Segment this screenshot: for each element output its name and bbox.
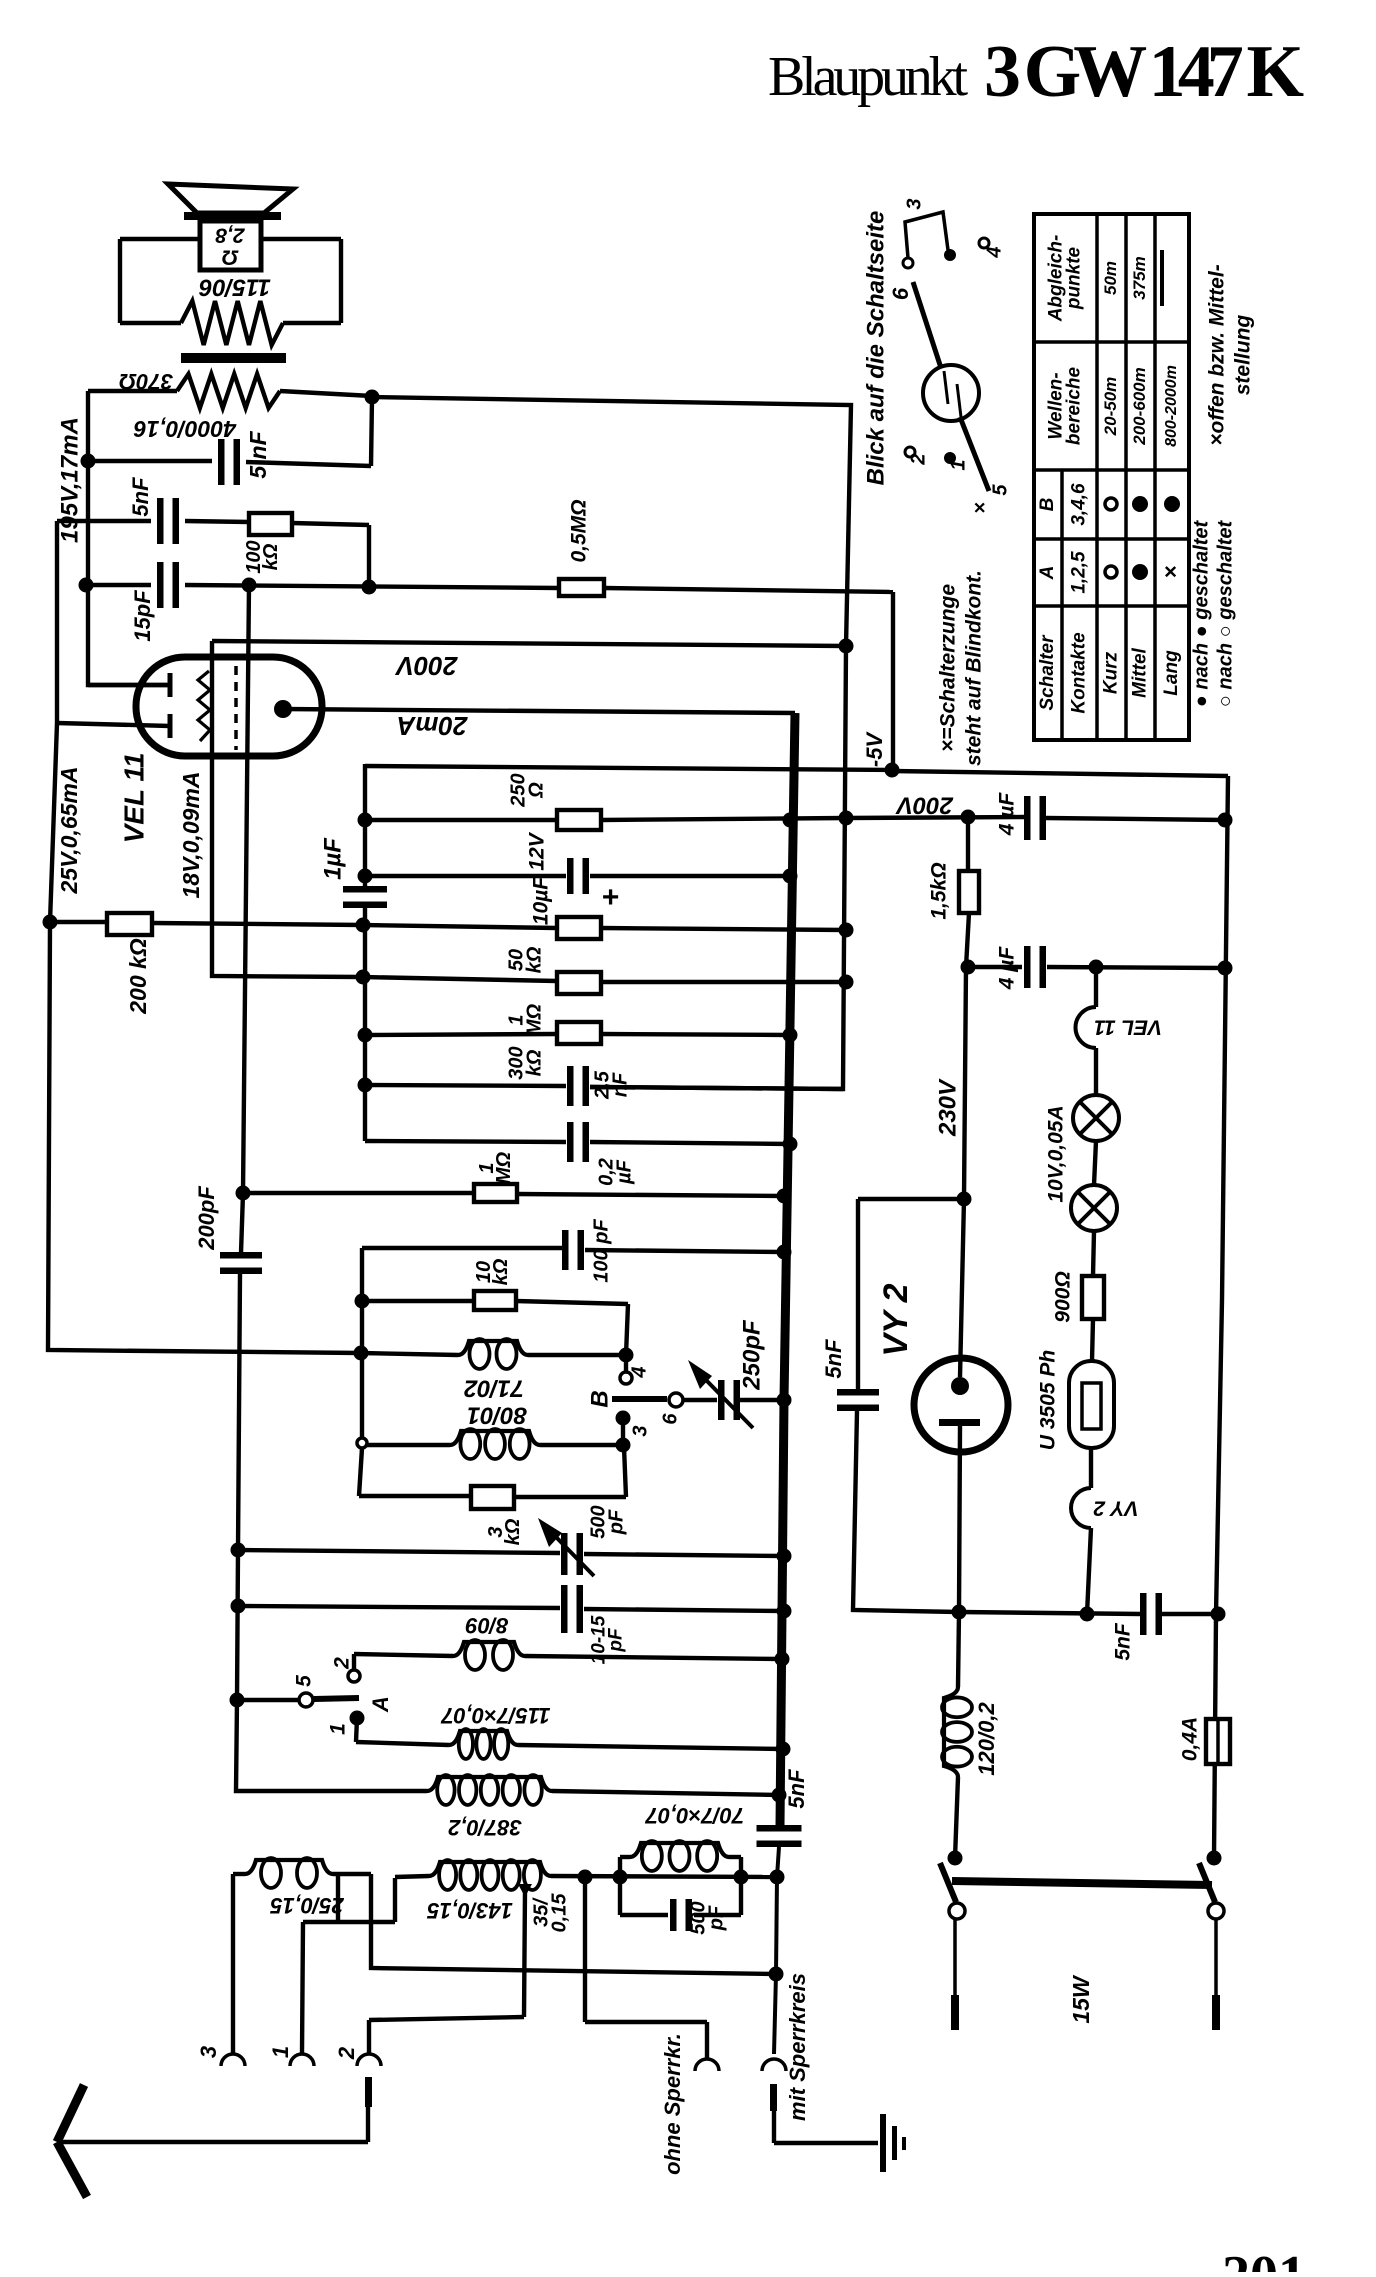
svg-text:200 kΩ: 200 kΩ — [125, 938, 151, 1015]
svg-text:195V,17mA: 195V,17mA — [56, 417, 83, 543]
svg-text:2: 2 — [331, 1657, 354, 1670]
svg-text:bereiche: bereiche — [1064, 366, 1085, 445]
svg-text:B: B — [1037, 497, 1058, 511]
svg-text:kΩ: kΩ — [490, 1258, 512, 1285]
svg-text:3: 3 — [903, 198, 925, 209]
svg-text:200V: 200V — [394, 651, 458, 681]
svg-text:● nach ● geschaltet: ● nach ● geschaltet — [1190, 519, 1212, 707]
svg-text:6: 6 — [888, 287, 913, 300]
svg-text:×=Schalterzunge: ×=Schalterzunge — [937, 584, 960, 752]
svg-text:25V,0,65mA: 25V,0,65mA — [56, 766, 82, 894]
svg-text:Lang: Lang — [1161, 650, 1182, 696]
svg-text:kΩ: kΩ — [523, 1049, 545, 1076]
svg-text:200V: 200V — [895, 792, 954, 819]
svg-text:+: + — [601, 881, 619, 914]
svg-text:5: 5 — [989, 484, 1011, 496]
svg-text:5: 5 — [293, 1675, 316, 1687]
svg-text:71/02: 71/02 — [463, 1375, 524, 1402]
svg-text:201: 201 — [1222, 2245, 1306, 2272]
svg-text:120/0,2: 120/0,2 — [974, 1702, 999, 1776]
svg-text:3,4,6: 3,4,6 — [1069, 483, 1090, 526]
svg-text:2: 2 — [907, 453, 929, 465]
svg-text:15W: 15W — [1068, 1974, 1094, 2024]
svg-text:1,2,5: 1,2,5 — [1069, 551, 1090, 594]
svg-text:2: 2 — [334, 2046, 359, 2060]
svg-text:4: 4 — [628, 1366, 650, 1378]
svg-text:0,4A: 0,4A — [1179, 1717, 1202, 1761]
svg-text:115/06: 115/06 — [199, 274, 271, 301]
svg-text:100 pF: 100 pF — [590, 1219, 612, 1283]
svg-text:×offen bzw. Mittel-: ×offen bzw. Mittel- — [1206, 264, 1229, 445]
svg-text:VEL 11: VEL 11 — [118, 753, 149, 844]
svg-text:punkte: punkte — [1064, 246, 1085, 310]
svg-text:0,15: 0,15 — [548, 1893, 570, 1933]
svg-text:stellung: stellung — [1232, 315, 1255, 396]
svg-text:5nF: 5nF — [821, 1339, 846, 1379]
svg-text:15pF: 15pF — [130, 590, 155, 642]
svg-text:18V,0,09mA: 18V,0,09mA — [178, 771, 204, 898]
svg-text:A: A — [368, 1696, 393, 1713]
svg-text:mit Sperrkreis: mit Sperrkreis — [785, 1973, 810, 2121]
svg-text:MΩ: MΩ — [523, 1003, 545, 1036]
svg-text:80/01: 80/01 — [467, 1402, 527, 1429]
svg-text:143/0,15: 143/0,15 — [426, 1898, 512, 1923]
svg-text:900Ω: 900Ω — [1052, 1271, 1075, 1322]
svg-text:5 nF: 5 nF — [245, 430, 271, 478]
svg-text:3: 3 — [629, 1425, 651, 1436]
svg-text:25/0,15: 25/0,15 — [270, 1893, 345, 1918]
svg-text:4 µF: 4 µF — [996, 946, 1019, 991]
svg-text:µF: µF — [613, 1159, 635, 1185]
svg-text:4: 4 — [983, 246, 1005, 258]
svg-text:10V,0,05A: 10V,0,05A — [1045, 1105, 1068, 1202]
svg-text:2,8: 2,8 — [215, 223, 246, 246]
svg-text:nF: nF — [609, 1072, 631, 1097]
svg-text:B: B — [586, 1390, 613, 1407]
svg-text:VEL 11: VEL 11 — [1094, 1015, 1162, 1038]
svg-text:1,5kΩ: 1,5kΩ — [928, 862, 951, 919]
svg-text:50m: 50m — [1101, 261, 1120, 295]
svg-text:1: 1 — [268, 2046, 293, 2058]
svg-text:10µF: 10µF — [530, 876, 553, 925]
svg-text:kΩ: kΩ — [502, 1518, 524, 1545]
svg-text:×: × — [1158, 565, 1183, 578]
svg-text:U 3505 Ph: U 3505 Ph — [1037, 1350, 1060, 1450]
svg-text:1µF: 1µF — [319, 837, 346, 880]
svg-text:8/09: 8/09 — [465, 1613, 509, 1638]
svg-text:3: 3 — [196, 2046, 221, 2058]
svg-text:115/7×0,07: 115/7×0,07 — [440, 1703, 551, 1728]
svg-text:Kurz: Kurz — [1101, 651, 1122, 694]
svg-text:MΩ: MΩ — [493, 1151, 515, 1184]
svg-text:○ nach ○ geschaltet: ○ nach ○ geschaltet — [1214, 519, 1236, 707]
svg-text:Kontakte: Kontakte — [1069, 632, 1090, 714]
svg-text:200pF: 200pF — [194, 1186, 219, 1251]
svg-text:12V: 12V — [526, 831, 549, 870]
svg-text:Schalter: Schalter — [1037, 634, 1058, 711]
svg-text:5nF: 5nF — [1112, 1622, 1135, 1661]
svg-text:0,5MΩ: 0,5MΩ — [568, 499, 591, 562]
svg-text:Mittel: Mittel — [1130, 647, 1151, 697]
svg-text:×: × — [969, 502, 991, 514]
svg-text:ohne Sperrkr.: ohne Sperrkr. — [660, 2033, 685, 2175]
svg-text:6: 6 — [659, 1413, 681, 1425]
svg-text:A: A — [1037, 566, 1058, 581]
svg-text:5nF: 5nF — [128, 477, 153, 517]
svg-text:-5V: -5V — [862, 731, 887, 768]
svg-text:387/0,2: 387/0,2 — [448, 1815, 522, 1840]
svg-text:steht auf Blindkont.: steht auf Blindkont. — [963, 570, 986, 766]
svg-text:pF: pF — [606, 1627, 627, 1653]
svg-text:Ω: Ω — [525, 782, 547, 799]
svg-text:800-2000m: 800-2000m — [1163, 365, 1180, 447]
svg-text:pF: pF — [605, 1509, 627, 1535]
svg-text:70/7×0,07: 70/7×0,07 — [644, 1803, 744, 1828]
svg-text:4000/0,16: 4000/0,16 — [134, 416, 238, 442]
svg-text:kΩ: kΩ — [260, 543, 282, 570]
svg-text:VY 2: VY 2 — [1093, 1496, 1138, 1519]
svg-text:VY 2: VY 2 — [877, 1283, 915, 1356]
svg-text:250pF: 250pF — [738, 1319, 765, 1391]
svg-text:5nF: 5nF — [784, 1769, 809, 1809]
svg-text:Ω: Ω — [222, 245, 239, 268]
svg-text:20mA: 20mA — [397, 711, 469, 741]
svg-text:200-600m: 200-600m — [1130, 367, 1149, 446]
svg-text:375m: 375m — [1130, 256, 1149, 299]
svg-text:1: 1 — [327, 1723, 350, 1735]
svg-text:kΩ: kΩ — [523, 946, 545, 973]
svg-text:3 GW 147 K: 3 GW 147 K — [984, 31, 1304, 113]
svg-text:1: 1 — [947, 459, 969, 470]
svg-text:pF: pF — [705, 1905, 727, 1931]
svg-text:230V: 230V — [934, 1078, 961, 1137]
svg-text:4 µF: 4 µF — [996, 792, 1019, 837]
svg-text:Blick auf die Schaltseite: Blick auf die Schaltseite — [862, 211, 889, 486]
svg-text:Blaupunkt: Blaupunkt — [768, 46, 968, 108]
svg-text:20-50m: 20-50m — [1101, 377, 1120, 437]
